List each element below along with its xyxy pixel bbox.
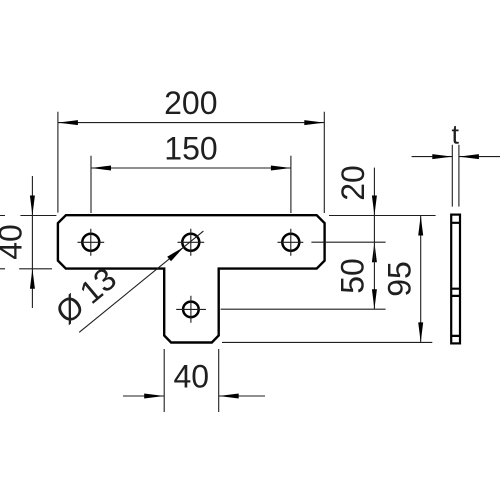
svg-text:40: 40 bbox=[174, 359, 210, 395]
dimension 40 bottom: dimension line tails bbox=[123, 395, 265, 397]
hole B crosshair bbox=[178, 229, 205, 256]
leader line for hole diameter bbox=[79, 231, 203, 332]
hole A crosshair bbox=[78, 229, 105, 256]
thickness dimension: extension lines bbox=[452, 145, 459, 207]
side view strip outline bbox=[451, 215, 460, 344]
plate outline (T-shaped connector, front view) bbox=[58, 215, 325, 342]
svg-text:40: 40 bbox=[0, 224, 29, 260]
svg-text:95: 95 bbox=[382, 261, 418, 297]
svg-text:50: 50 bbox=[335, 258, 371, 294]
right extension line: stem hole centerline bbox=[221, 308, 386, 310]
thickness dimension: arrowheads bbox=[432, 154, 452, 159]
dimension 40 bottom: arrowheads bbox=[144, 394, 164, 399]
dimension 95: arrowheads bbox=[418, 216, 423, 236]
right extension line: stem bottom edge bbox=[222, 341, 432, 343]
dimension 40 left: dimension line bbox=[31, 176, 33, 308]
dimension 200: arrowheads bbox=[58, 120, 78, 125]
side view strip internal lines bbox=[451, 223, 460, 336]
dimension 40 left: extension lines bbox=[0, 216, 56, 269]
dimension 200: dimension line bbox=[58, 122, 324, 124]
svg-text:t: t bbox=[451, 120, 459, 150]
hole C crosshair bbox=[278, 229, 304, 256]
dimension 150: arrowheads bbox=[91, 166, 111, 171]
dimension 150: dimension line bbox=[91, 167, 291, 169]
dimension 20: arrowheads bbox=[372, 196, 377, 216]
hole A (left) bbox=[82, 234, 99, 251]
hole C (right) bbox=[282, 234, 299, 251]
dimension 95: dimension line bbox=[420, 216, 422, 343]
right extension line: top holes centerline bbox=[311, 241, 385, 243]
hole D (stem) bbox=[183, 302, 199, 318]
leader arrowhead bbox=[167, 247, 184, 261]
dimension 50: dimension line bbox=[373, 242, 375, 309]
right extension line: plate top edge bbox=[329, 215, 436, 217]
hole D crosshair bbox=[176, 296, 206, 323]
thickness dimension: dimension line bbox=[412, 156, 500, 158]
hole B (center) bbox=[182, 234, 199, 251]
svg-text:200: 200 bbox=[164, 85, 217, 121]
svg-text:20: 20 bbox=[335, 165, 371, 201]
dimension 40 left: arrowheads bbox=[30, 196, 35, 216]
dimension 150: extension lines bbox=[91, 156, 291, 213]
dimension 50: arrowhead bbox=[372, 289, 377, 309]
dimension 20: dimension line bbox=[373, 168, 375, 243]
svg-text:150: 150 bbox=[164, 130, 217, 166]
dimension 200: extension lines bbox=[58, 112, 324, 213]
dimension 40 bottom: extension lines bbox=[164, 349, 219, 412]
